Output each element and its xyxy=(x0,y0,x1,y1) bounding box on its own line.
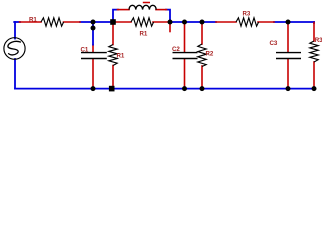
svg-text:R3: R3 xyxy=(243,11,251,18)
svg-text:R2: R2 xyxy=(206,50,214,57)
svg-text:R1: R1 xyxy=(140,31,148,38)
svg-text:C1: C1 xyxy=(81,47,89,54)
svg-text:R1: R1 xyxy=(29,16,37,23)
svg-text:R3: R3 xyxy=(315,37,322,44)
svg-text:C2: C2 xyxy=(172,46,180,53)
svg-text:R1: R1 xyxy=(117,53,125,60)
svg-text:C3: C3 xyxy=(270,40,278,47)
